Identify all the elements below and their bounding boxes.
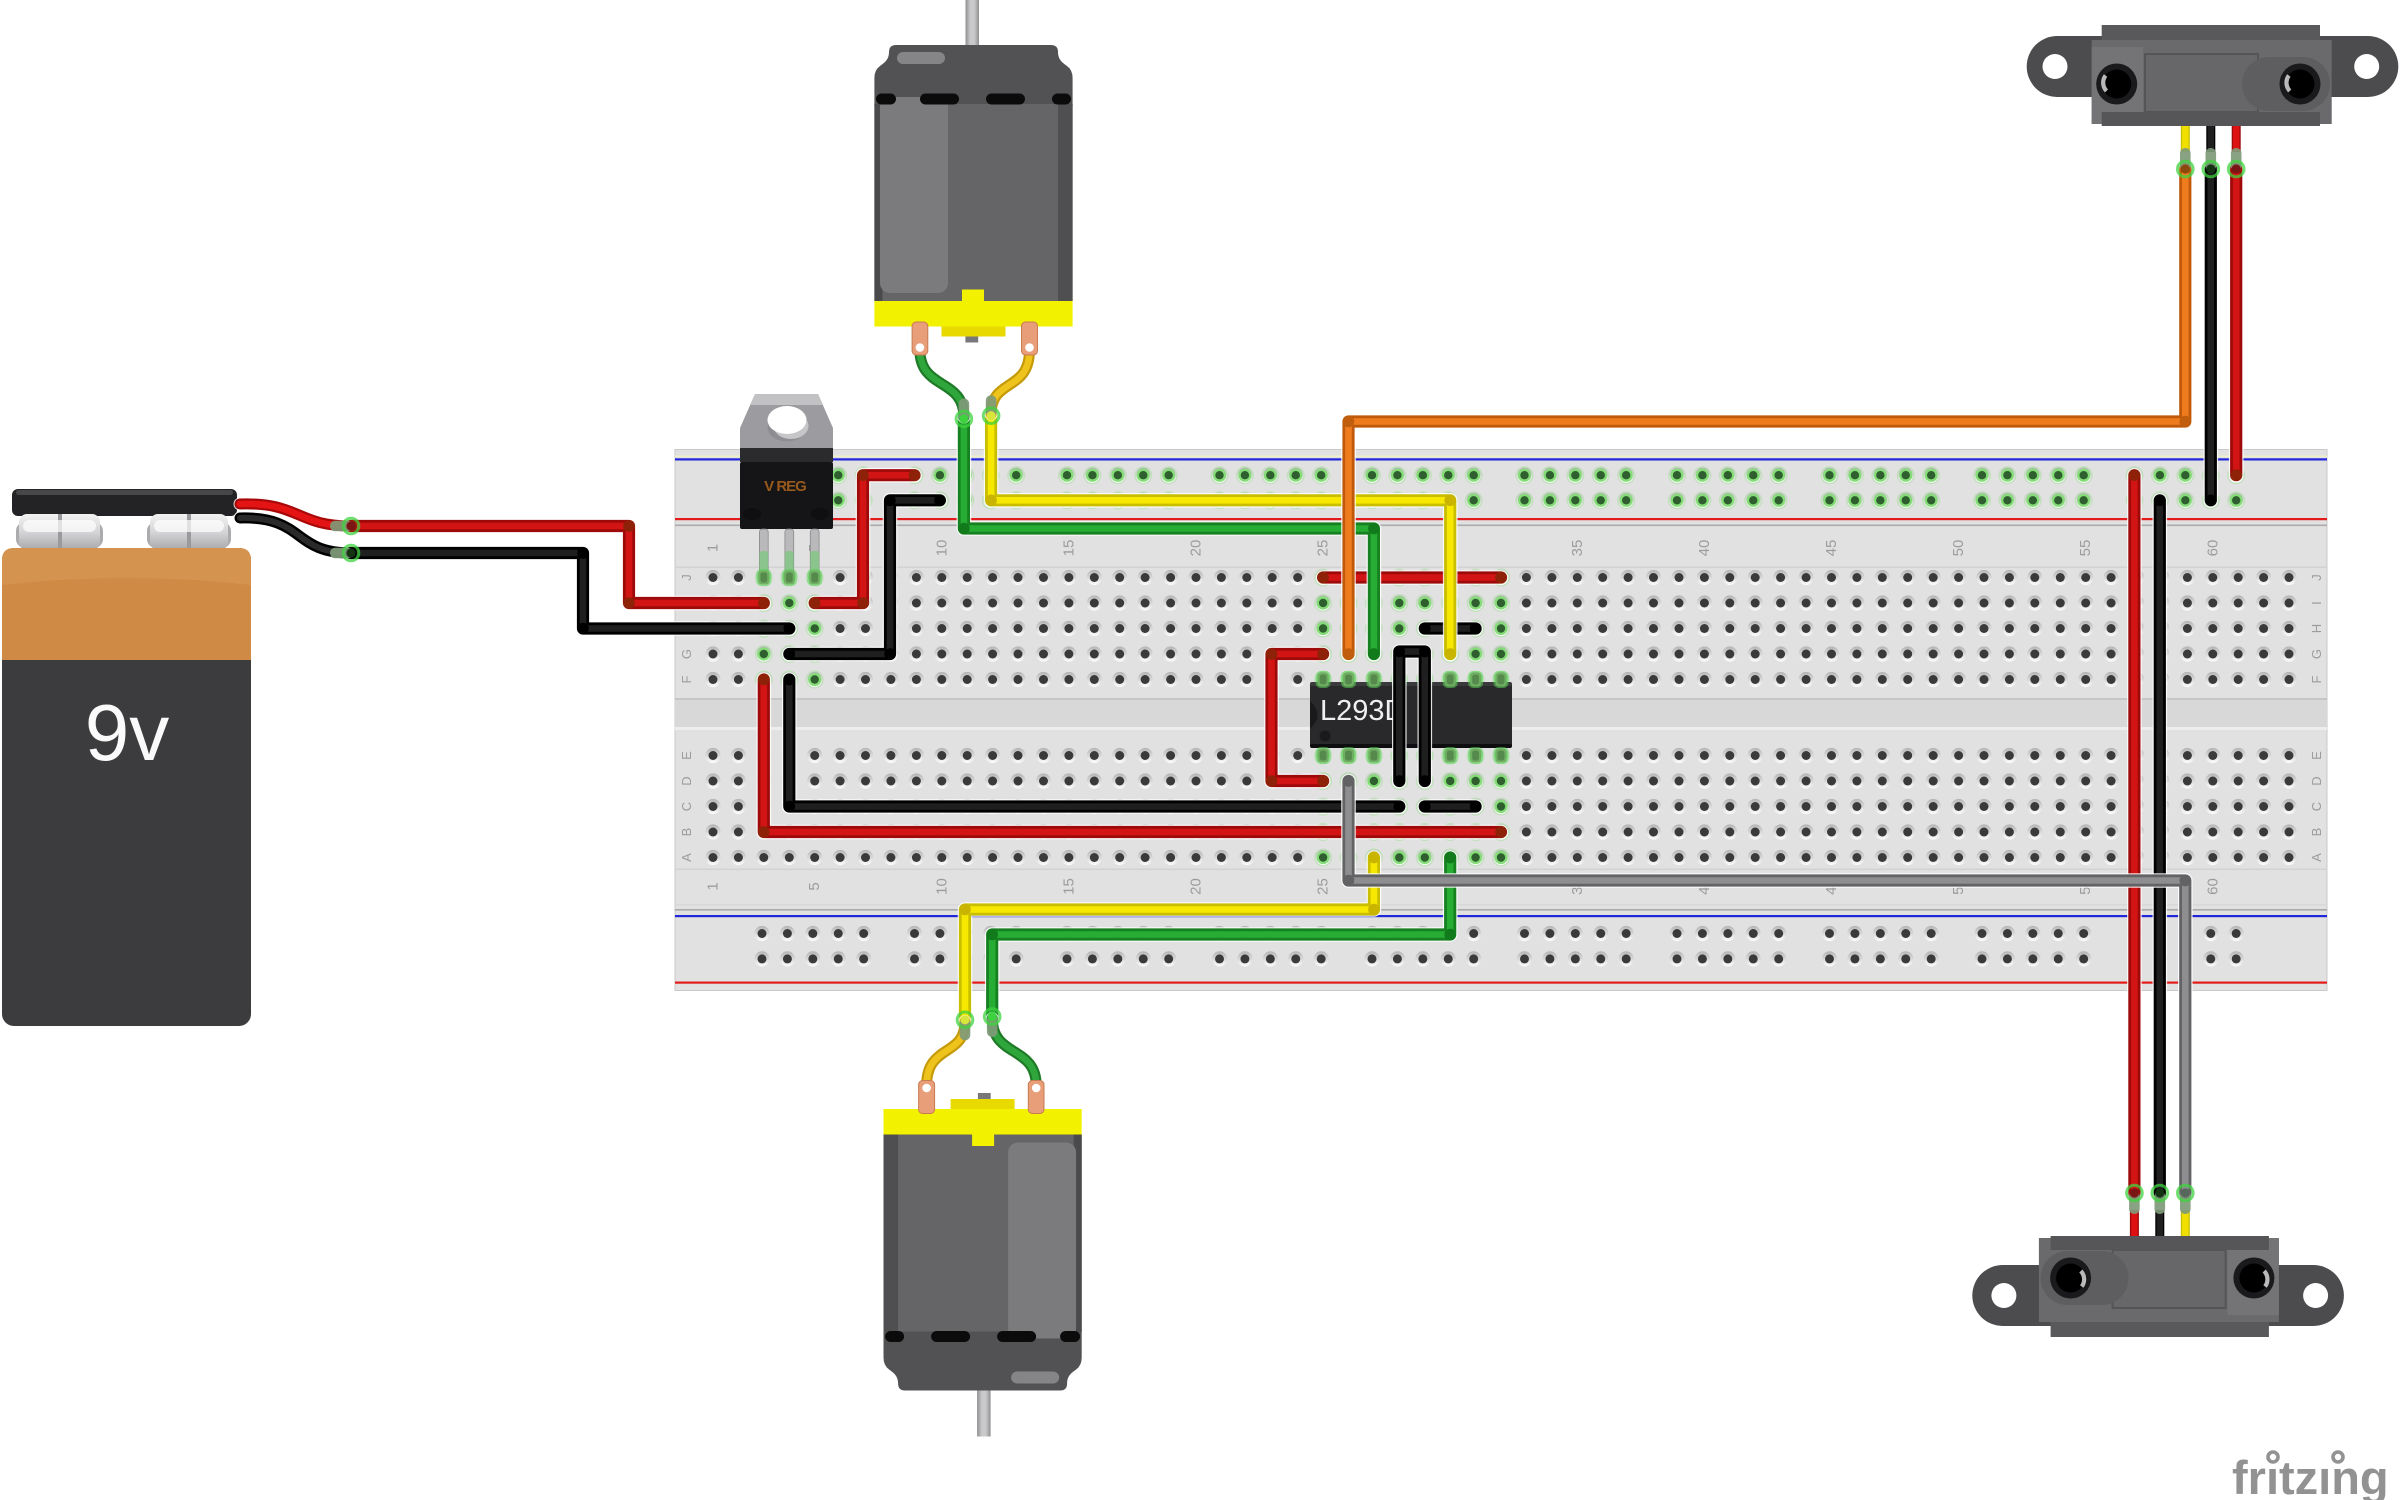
svg-text:F: F xyxy=(679,675,694,683)
svg-text:15: 15 xyxy=(1060,540,1077,557)
junction ring gray/bottom sensor yellow xyxy=(2180,1191,2191,1214)
wire black jumper C29 to C31 xyxy=(1425,799,1476,814)
svg-text:C: C xyxy=(679,802,694,811)
wire black top sensor to rail xyxy=(2204,169,2219,500)
IR distance sensor top right xyxy=(2027,25,2399,152)
wire yellow top motor to G30 xyxy=(991,416,1450,654)
svg-text:60: 60 xyxy=(2204,878,2221,895)
svg-text:9v: 9v xyxy=(85,688,170,777)
wire red J25 to J32 xyxy=(1323,570,1501,585)
wire red bottom sensor to top rail xyxy=(2127,475,2142,1193)
svg-text:35: 35 xyxy=(1569,540,1586,557)
wire black F4 to C28 xyxy=(789,680,1399,807)
junction ring top sensor black xyxy=(2206,148,2217,171)
svg-text:G: G xyxy=(679,649,694,659)
svg-text:10: 10 xyxy=(933,878,950,895)
wire black bottom sensor to top rail xyxy=(2153,500,2168,1193)
svg-text:1: 1 xyxy=(705,544,722,552)
wire black VREG gnd G4 to top rail xyxy=(789,500,940,654)
wire yellow bottom motor to A27 xyxy=(965,858,1374,1020)
wire gray D26 to bottom sensor xyxy=(1349,781,2186,1193)
svg-text:25: 25 xyxy=(1315,540,1332,557)
svg-text:D: D xyxy=(2309,776,2324,785)
svg-text:A: A xyxy=(679,853,694,862)
wire black loop G28/G29 to D28/D29 over chip xyxy=(1399,652,1425,782)
battery 9V xyxy=(12,489,237,516)
battery red lead wire xyxy=(240,504,351,526)
svg-text:V REG: V REG xyxy=(764,478,806,495)
svg-text:55: 55 xyxy=(2077,540,2094,557)
top power rail (blue/red lines) xyxy=(675,456,2327,458)
svg-text:25: 25 xyxy=(1315,878,1332,895)
svg-text:20: 20 xyxy=(1188,878,1205,895)
DC motor top xyxy=(874,0,1072,427)
DC motor bottom (rotated copy) xyxy=(884,1009,1082,1437)
svg-text:J: J xyxy=(2309,574,2324,581)
svg-text:A: A xyxy=(2309,853,2324,862)
bottom power rail (blue/red lines) xyxy=(675,915,2327,917)
junction ring orange/top sensor yellow xyxy=(2180,148,2191,171)
junction ring battery red xyxy=(330,521,353,532)
wire black battery to H4 xyxy=(351,553,789,629)
wire green bottom motor to A30 xyxy=(992,858,1450,1017)
svg-text:B: B xyxy=(2309,828,2324,837)
svg-text:E: E xyxy=(2309,751,2324,760)
svg-text:I: I xyxy=(2309,601,2324,605)
wire red battery to I3 xyxy=(351,526,764,603)
wire red F3 to B32 xyxy=(764,680,1501,833)
voltage regulator V REG xyxy=(740,394,833,448)
svg-text:D: D xyxy=(679,776,694,785)
breadboard xyxy=(675,450,2327,991)
junction ring bottom sensor red xyxy=(2129,1191,2140,1214)
svg-text:G: G xyxy=(2309,649,2324,659)
svg-text:H: H xyxy=(2309,624,2324,633)
battery black lead wire xyxy=(240,518,351,553)
wire red top sensor to rail xyxy=(2229,169,2244,475)
wire black jumper H29 to H31 xyxy=(1425,621,1476,636)
svg-text:40: 40 xyxy=(1696,540,1713,557)
breadboard holes xyxy=(705,570,720,585)
svg-text:J: J xyxy=(679,574,694,581)
svg-text:5: 5 xyxy=(806,882,823,890)
svg-text:10: 10 xyxy=(933,540,950,557)
IC L293D xyxy=(1310,682,1512,748)
wire red U G25 to D25 xyxy=(1272,654,1324,781)
svg-text:B: B xyxy=(679,828,694,837)
junction ring battery black xyxy=(330,548,353,559)
svg-text:F: F xyxy=(2309,675,2324,683)
svg-text:1: 1 xyxy=(705,882,722,890)
svg-text:C: C xyxy=(2309,802,2324,811)
wire green top motor to G27 xyxy=(964,419,1374,654)
junction ring bottom sensor black xyxy=(2155,1191,2166,1214)
wire orange top sensor to G26 xyxy=(1349,169,2186,654)
svg-text:15: 15 xyxy=(1060,878,1077,895)
svg-text:60: 60 xyxy=(2204,540,2221,557)
IR distance sensor bottom right (rotated copy) xyxy=(1972,1210,2344,1337)
wire red VREG out I5 to top rail xyxy=(815,475,915,603)
svg-text:20: 20 xyxy=(1188,540,1205,557)
junction ring top sensor red xyxy=(2231,148,2242,171)
svg-text:50: 50 xyxy=(1950,540,1967,557)
svg-text:frıtzıng: frıtzıng xyxy=(2232,1451,2389,1500)
svg-text:E: E xyxy=(679,751,694,760)
svg-text:45: 45 xyxy=(1823,540,1840,557)
